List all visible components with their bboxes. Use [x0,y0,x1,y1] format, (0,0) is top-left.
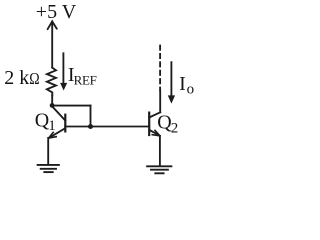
label Q1 [35,110,56,134]
transistor Q1 collector diagonal [52,106,65,120]
label IREF [68,64,97,87]
wire corner down to base rail [90,106,92,127]
ground (Q1 emitter) [38,164,59,166]
transistor Q1 emitter diagonal with arrow [49,129,65,139]
svg-text:2: 2 [171,121,179,137]
svg-text:+5 V: +5 V [36,1,77,23]
wire +5V to resistor top [51,22,53,68]
node +5V supply label [36,1,77,23]
label Q2 [157,112,178,137]
wire Q2 collector solid [159,91,161,112]
dashed collector stub (Io branch) [159,46,161,91]
transistor Q1 base bar [64,115,66,132]
label Io [179,73,194,98]
svg-text:1: 1 [48,118,56,134]
svg-text:REF: REF [74,72,97,87]
wire Q2 emitter to ground [159,136,161,166]
value label 2 kOhm [4,67,39,89]
transistor Q2 base bar [148,113,150,135]
svg-text:Ω: Ω [29,70,39,88]
node junction dot A (Q1 collector node) [50,103,55,108]
svg-text:I: I [179,73,186,95]
arrow to +5V (open barb arrowhead) [48,21,57,29]
svg-text:o: o [187,82,195,98]
current arrow Io (downward, filled head) [170,62,172,96]
wire Q1 emitter to ground [47,138,49,164]
current arrow IREF (downward, filled head) [62,53,64,84]
ground (Q2 emitter) [147,165,171,167]
wire collector node to diode-connection corner [52,105,90,107]
node junction dot B (base rail junction) [88,124,93,129]
svg-text:2 k: 2 k [4,67,29,89]
transistor Q2 collector diagonal [149,112,160,117]
wire resistor bottom to collector node [51,95,53,104]
resistor R1 2 kOhm zigzag [47,68,56,96]
wire base rail Q1 to Q2 [65,126,149,128]
transistor Q2 emitter diagonal with arrow [150,130,160,136]
